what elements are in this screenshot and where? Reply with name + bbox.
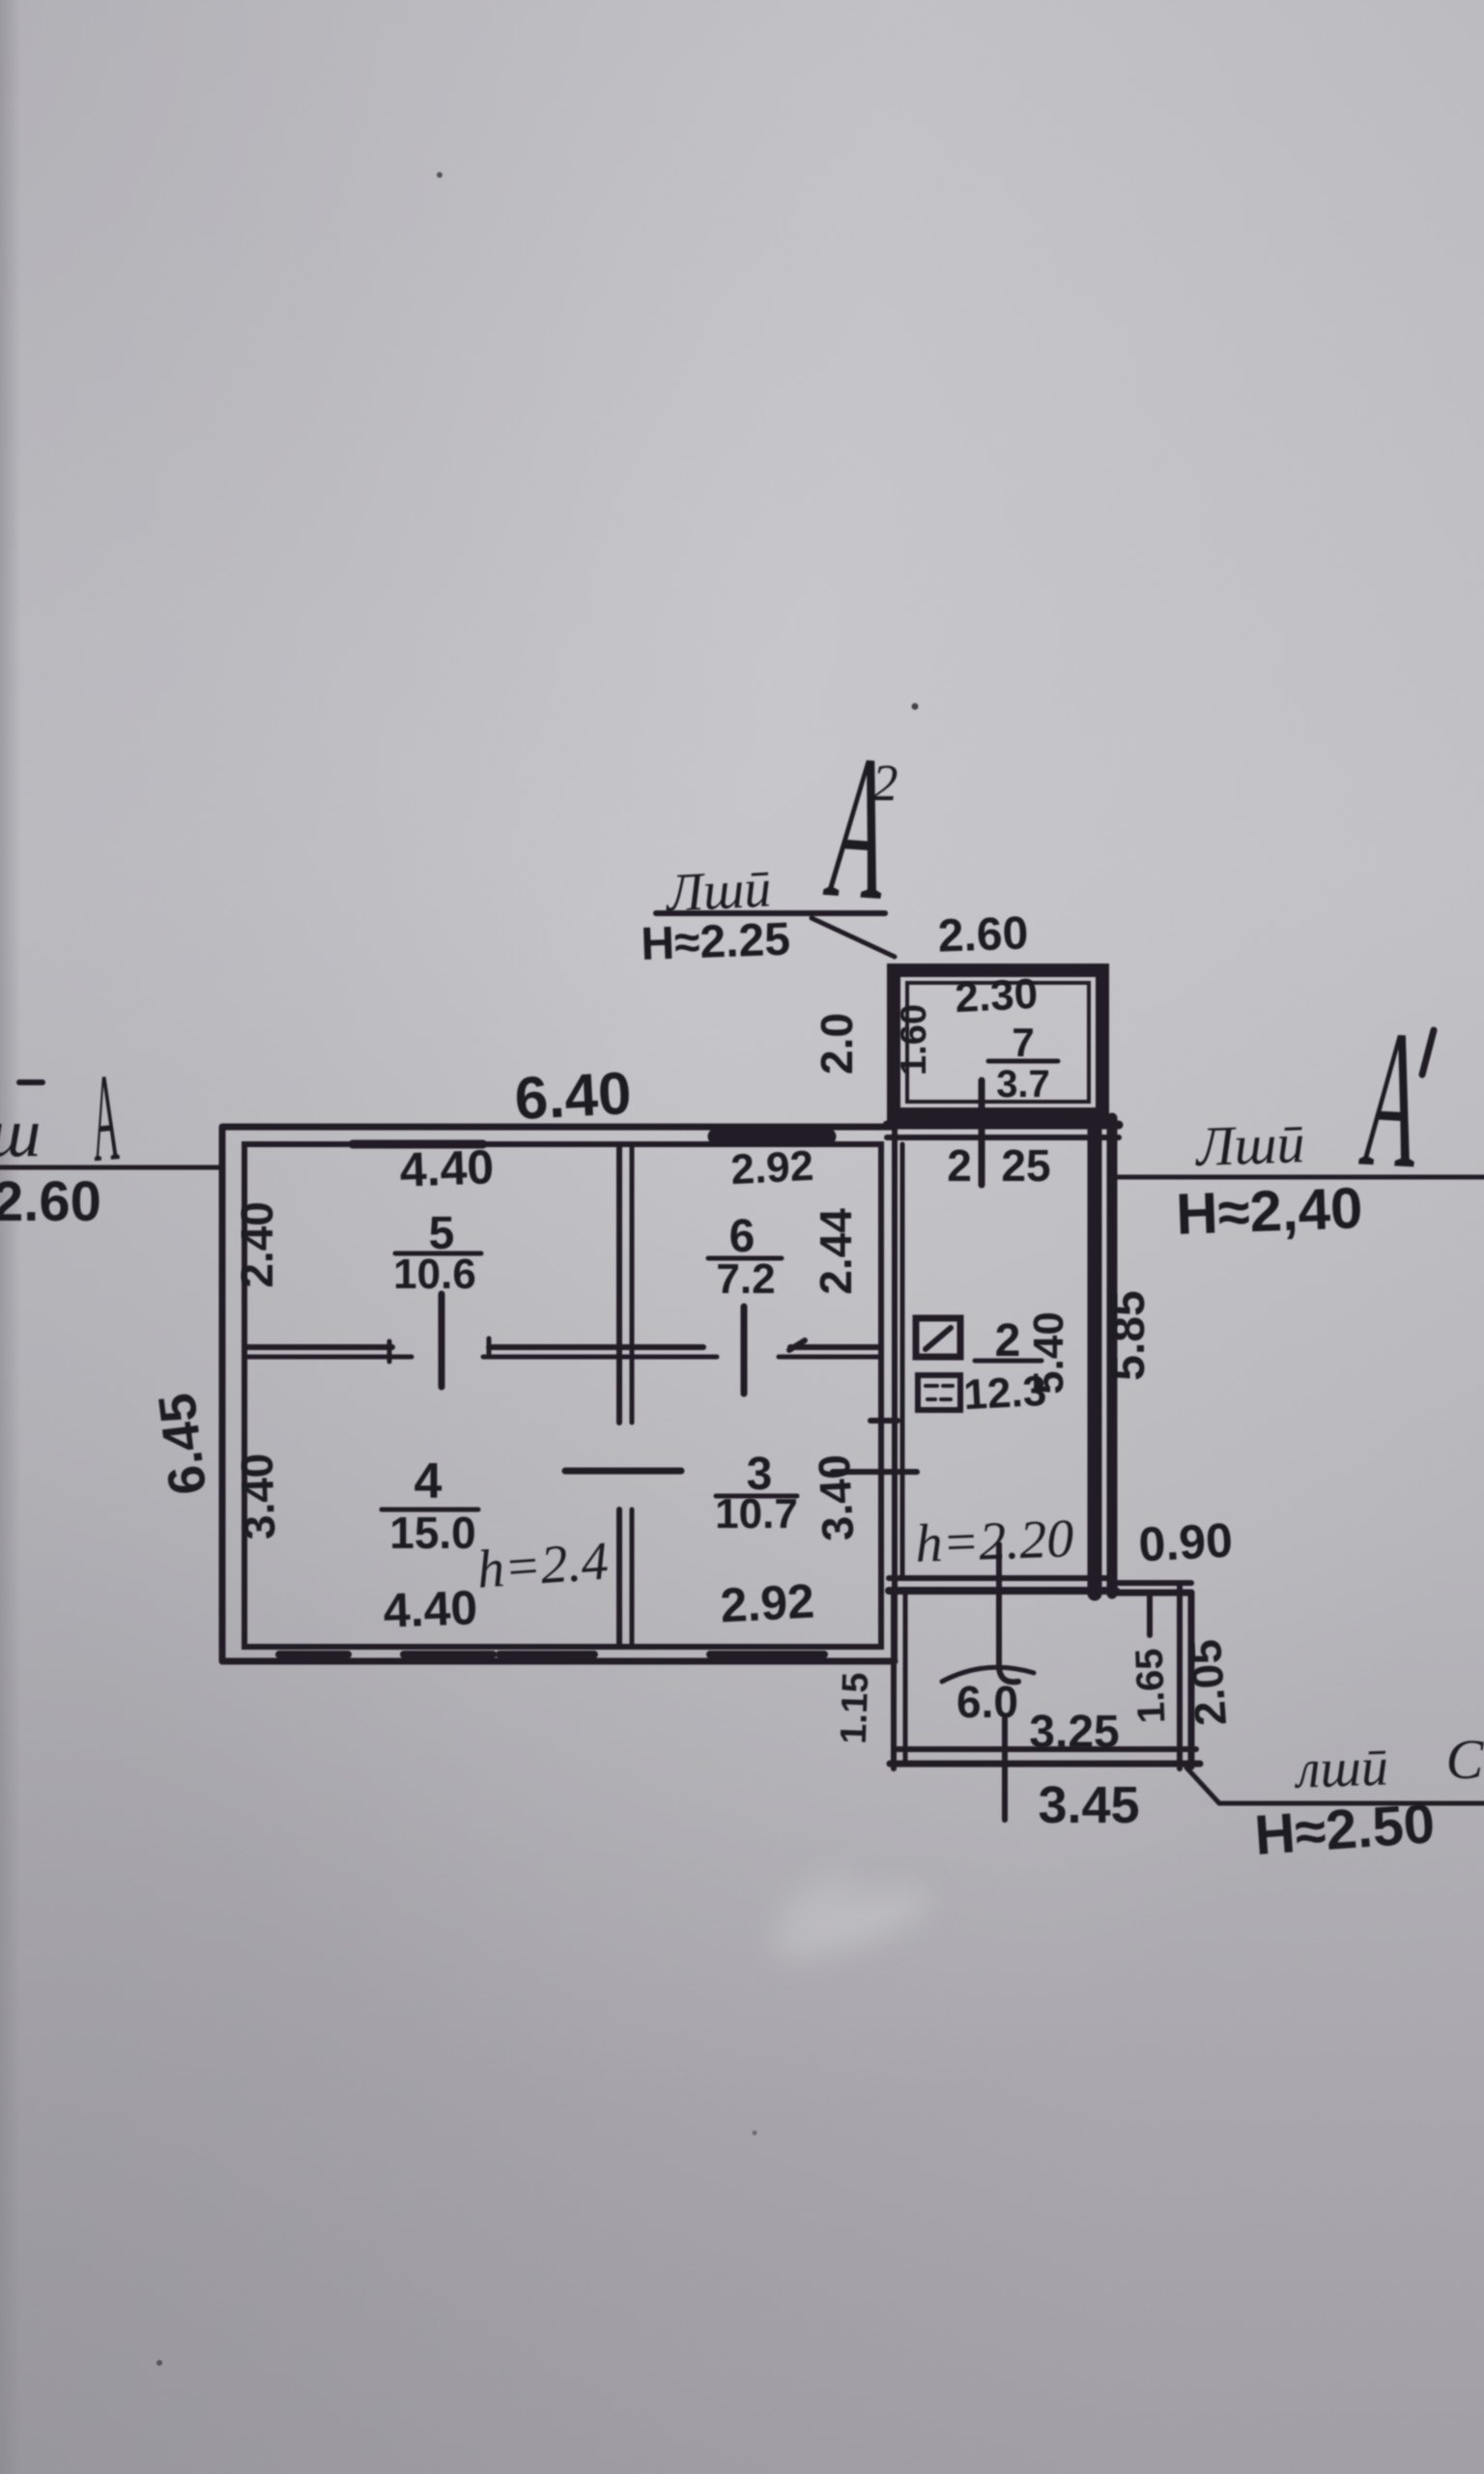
svg-text:2.30: 2.30 — [954, 970, 1039, 1021]
svg-text:1.65: 1.65 — [1128, 1648, 1174, 1724]
svg-text:7: 7 — [1012, 1020, 1034, 1065]
svg-text:3.7: 3.7 — [996, 1063, 1050, 1106]
svg-text:3.40: 3.40 — [809, 1453, 864, 1542]
svg-text:4: 4 — [414, 1453, 442, 1510]
svg-text:4.40: 4.40 — [399, 1139, 495, 1196]
svg-text:С: С — [1446, 1728, 1484, 1791]
svg-text:5.85: 5.85 — [1103, 1290, 1155, 1380]
svg-text:4.40: 4.40 — [383, 1580, 478, 1637]
svg-text:6.45: 6.45 — [148, 1390, 217, 1498]
svg-text:2.92: 2.92 — [729, 1142, 814, 1194]
svg-text:h=2.20: h=2.20 — [914, 1509, 1074, 1574]
svg-text:15.0: 15.0 — [389, 1508, 476, 1558]
svg-text:2.60: 2.60 — [937, 907, 1029, 962]
svg-text:2: 2 — [947, 1140, 972, 1191]
svg-text:2.44: 2.44 — [811, 1208, 861, 1295]
svg-text:2.05: 2.05 — [1180, 1638, 1236, 1728]
svg-text:h=2.4: h=2.4 — [475, 1531, 611, 1599]
svg-text:6.0: 6.0 — [956, 1677, 1018, 1727]
svg-text:ш: ш — [0, 1094, 41, 1171]
svg-text:H≈2.25: H≈2.25 — [641, 914, 791, 970]
svg-text:10.7: 10.7 — [715, 1490, 798, 1538]
svg-text:7.2: 7.2 — [716, 1255, 775, 1303]
svg-text:6.40: 6.40 — [513, 1060, 633, 1133]
svg-text:3.45: 3.45 — [1038, 1776, 1139, 1834]
svg-text:H≈2,40: H≈2,40 — [1175, 1175, 1363, 1247]
svg-text:Лшū: Лшū — [663, 858, 772, 924]
svg-text:лшū: лшū — [1293, 1737, 1389, 1799]
svg-text:2.40: 2.40 — [232, 1201, 282, 1288]
svg-text:25: 25 — [1001, 1140, 1050, 1191]
svg-text:2: 2 — [872, 754, 899, 812]
svg-text:3.25: 3.25 — [1029, 1707, 1119, 1758]
svg-text:0.90: 0.90 — [1137, 1513, 1234, 1572]
svg-text:2: 2 — [995, 1315, 1021, 1366]
svg-text:2.92: 2.92 — [719, 1574, 815, 1633]
svg-text:H≈2.50: H≈2.50 — [1252, 1792, 1437, 1867]
svg-text:3.40: 3.40 — [231, 1453, 284, 1540]
svg-text:2.60: 2.60 — [0, 1170, 101, 1233]
svg-text:1.60: 1.60 — [894, 1004, 934, 1076]
svg-text:1.15: 1.15 — [834, 1672, 877, 1744]
svg-text:2.0: 2.0 — [812, 1013, 862, 1075]
svg-text:Лшū: Лшū — [1193, 1111, 1305, 1178]
svg-text:10.6: 10.6 — [393, 1251, 476, 1298]
svg-text:5.40: 5.40 — [1025, 1311, 1072, 1395]
